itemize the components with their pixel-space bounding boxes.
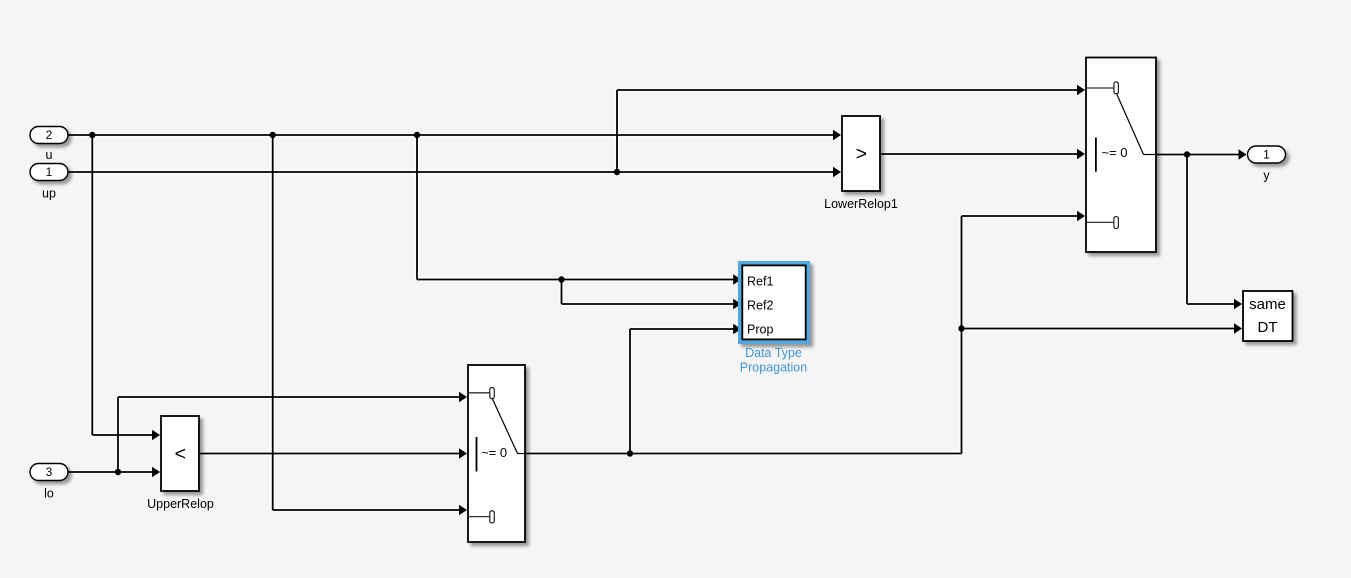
svg-text:3: 3 <box>46 465 53 479</box>
svg-text:DT: DT <box>1258 319 1278 336</box>
wire UpperRelop output <box>199 453 460 455</box>
outport 1 (y) <box>1248 146 1286 163</box>
svg-text:UpperRelop: UpperRelop <box>147 497 214 511</box>
svg-text:2: 2 <box>46 128 53 142</box>
upper switch control bar and criteria <box>1095 138 1097 172</box>
wire LowerRelop1 output <box>880 153 1078 155</box>
inport 1 (up) <box>30 164 68 181</box>
svg-text:<: < <box>175 443 186 465</box>
svg-text:>: > <box>856 143 867 165</box>
svg-text:Ref2: Ref2 <box>747 299 773 313</box>
svg-text:~= 0: ~= 0 <box>481 445 507 460</box>
upper switch input 3 port icon <box>1087 217 1119 229</box>
svg-text:Data Type: Data Type <box>745 346 802 360</box>
wire lower switch output <box>525 216 1235 454</box>
wire lo from inport 3 <box>68 397 460 472</box>
svg-text:1: 1 <box>1263 148 1270 162</box>
svg-text:Prop: Prop <box>747 323 773 337</box>
lower switch input 3 port icon <box>469 511 495 523</box>
wire top switch output <box>1156 155 1239 305</box>
upper switch input 1 port icon <box>1087 82 1119 94</box>
svg-text:same: same <box>1249 296 1286 313</box>
lower switch lever <box>492 399 517 454</box>
switch block (upper) <box>1086 58 1156 253</box>
same DT block <box>1243 291 1293 341</box>
svg-text:1: 1 <box>46 165 53 179</box>
svg-text:LowerRelop1: LowerRelop1 <box>824 197 898 211</box>
switch block (lower) <box>468 365 525 542</box>
inport 3 (lo) <box>30 464 68 481</box>
svg-text:lo: lo <box>44 487 54 501</box>
svg-text:up: up <box>42 187 56 201</box>
lower switch control bar and criteria <box>476 437 478 472</box>
relational operator LowerRelop1 <box>842 116 880 191</box>
arrowheads <box>152 85 1247 515</box>
relational operator UpperRelop <box>161 416 199 491</box>
wire u from inport 2 <box>68 135 834 510</box>
inport 2 (u) <box>30 127 68 144</box>
upper switch lever <box>1117 94 1144 155</box>
lower switch input 1 port icon <box>469 388 495 399</box>
svg-text:Ref1: Ref1 <box>747 275 773 289</box>
svg-text:Propagation: Propagation <box>740 361 807 375</box>
wire up from inport 1 <box>68 90 1078 172</box>
svg-text:y: y <box>1263 169 1270 183</box>
wire casings (white halo under all wires) <box>68 90 1240 510</box>
svg-text:u: u <box>46 148 53 162</box>
Data Type Propagation block (selected, blue highlight) <box>738 261 810 344</box>
svg-text:~= 0: ~= 0 <box>1102 145 1128 160</box>
